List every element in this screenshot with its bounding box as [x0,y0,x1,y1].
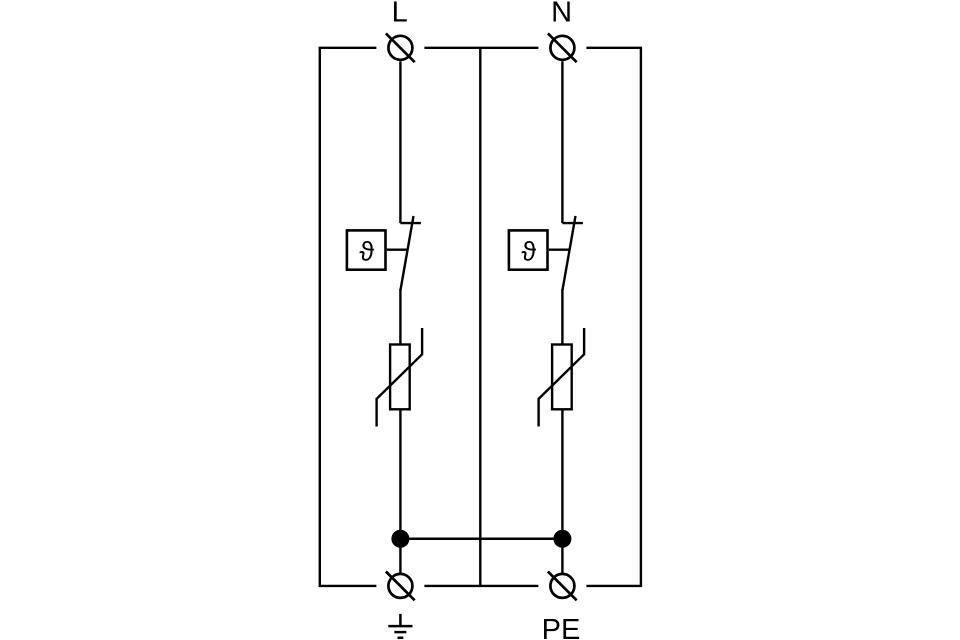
svg-text:PE: PE [542,614,581,640]
svg-text:ϑ: ϑ [359,236,374,266]
svg-text:L: L [392,0,408,28]
svg-text:ϑ: ϑ [521,236,536,266]
svg-text:N: N [551,0,572,28]
